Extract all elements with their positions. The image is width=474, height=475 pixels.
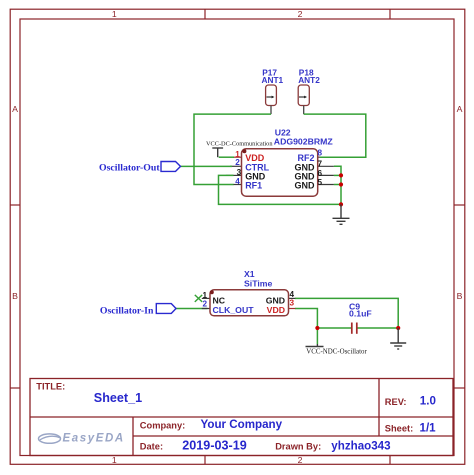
svg-text:5: 5 [318,178,323,187]
svg-text:B: B [457,291,463,301]
svg-text:B: B [12,291,18,301]
svg-text:Drawn By:: Drawn By: [275,442,321,452]
svg-text:CLK_OUT: CLK_OUT [213,305,255,315]
svg-text:SiTime: SiTime [244,279,272,289]
svg-text:2: 2 [202,300,207,309]
svg-text:VCC-NDC-Oscillator: VCC-NDC-Oscillator [306,349,367,356]
svg-text:1.0: 1.0 [420,395,436,408]
svg-text:2: 2 [298,455,303,465]
svg-text:ANT1: ANT1 [262,75,284,85]
svg-text:1: 1 [202,291,207,300]
svg-text:A: A [12,104,18,114]
svg-text:2019-03-19: 2019-03-19 [182,439,246,453]
svg-text:Company:: Company: [140,420,185,430]
svg-text:0.1uF: 0.1uF [349,308,372,318]
svg-text:RF1: RF1 [245,181,262,191]
svg-text:7: 7 [318,160,323,169]
svg-text:Oscillator-Out: Oscillator-Out [99,163,160,174]
svg-text:ANT2: ANT2 [298,75,320,85]
svg-text:Date:: Date: [140,442,163,452]
svg-text:Sheet_1: Sheet_1 [94,391,142,405]
svg-text:1: 1 [112,9,117,19]
svg-text:REV:: REV: [385,397,407,407]
svg-text:X1: X1 [244,269,255,279]
svg-text:A: A [457,104,463,114]
svg-text:Your Company: Your Company [201,418,283,431]
svg-text:VCC-DC-Communication: VCC-DC-Communication [206,140,273,147]
svg-text:6: 6 [318,169,323,178]
svg-text:8: 8 [318,149,323,158]
svg-text:GND: GND [295,181,316,191]
svg-text:ADG902BRMZ: ADG902BRMZ [274,137,334,147]
svg-text:Sheet:: Sheet: [385,423,413,433]
svg-text:VDD: VDD [267,305,285,315]
svg-text:4: 4 [235,177,240,186]
svg-text:TITLE:: TITLE: [36,382,65,392]
svg-text:2: 2 [298,9,303,19]
svg-text:1: 1 [112,455,117,465]
svg-text:3: 3 [237,168,242,177]
svg-text:3: 3 [290,298,295,307]
svg-text:2: 2 [235,158,240,167]
svg-text:EasyEDA: EasyEDA [63,433,125,445]
svg-text:1/1: 1/1 [420,421,437,434]
svg-text:yhzhao343: yhzhao343 [331,440,391,453]
svg-text:Oscillator-In: Oscillator-In [100,305,154,316]
